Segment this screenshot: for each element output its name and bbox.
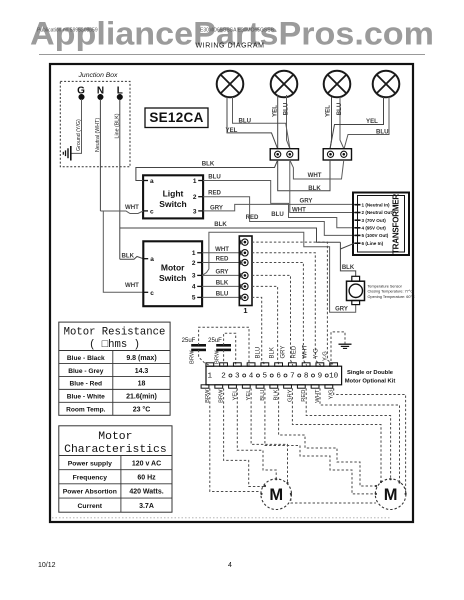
svg-text:WHT: WHT <box>125 282 139 289</box>
wire BLK light switch a riser <box>136 160 278 181</box>
svg-text:BLK: BLK <box>270 347 276 358</box>
svg-text:Junction Box: Junction Box <box>78 72 119 79</box>
svg-text:BLU: BLU <box>216 290 229 297</box>
dashed ground wire (kit) <box>331 332 345 366</box>
kit screws <box>229 374 232 377</box>
kit pin 10 tab <box>330 363 338 366</box>
svg-text:BLU: BLU <box>208 174 221 181</box>
wire BLK kit6 to M2 <box>279 388 377 486</box>
svg-text:Line (BLK): Line (BLK) <box>115 113 121 138</box>
svg-text:Motor: Motor <box>98 431 132 443</box>
svg-text:YEL: YEL <box>325 105 332 117</box>
svg-text:10: 10 <box>329 373 339 381</box>
svg-text:BRW: BRW <box>219 389 225 403</box>
dashed harness strip to kit connector <box>252 242 335 365</box>
wire BLK line to motor switch a <box>120 257 144 260</box>
svg-text:120 v AC: 120 v AC <box>132 460 161 467</box>
wire BRW kit2 to M1 <box>224 388 265 486</box>
model label SE12CA <box>145 108 208 128</box>
svg-text:14.3: 14.3 <box>135 368 149 375</box>
svg-text:Neutral (WHT): Neutral (WHT) <box>95 118 101 152</box>
lamp E3 wire BLU <box>340 97 344 149</box>
svg-text:5: 5 <box>263 373 268 381</box>
svg-text:4: 4 <box>228 562 232 569</box>
wire WHT branch to motor switch c <box>103 211 143 292</box>
svg-text:23 °C: 23 °C <box>133 406 151 414</box>
lamp E2 wire BLU <box>287 95 291 149</box>
wire WHT to transformer pin2 <box>290 160 355 213</box>
ground wire (Y/G) <box>72 99 82 153</box>
motor M1 <box>261 479 292 510</box>
svg-text:c: c <box>150 208 154 215</box>
svg-text:1: 1 <box>243 306 247 315</box>
wire WHT motor switch 1 <box>202 252 239 254</box>
svg-text:Opening Temperature: 60°C: Opening Temperature: 60°C <box>368 295 416 299</box>
svg-text:BRW: BRW <box>190 350 196 364</box>
svg-text:RED: RED <box>216 256 229 263</box>
wire BLU kit5 to M2 <box>265 388 375 494</box>
svg-text:Frequency: Frequency <box>73 474 108 481</box>
kit pin 6 tab <box>275 363 283 366</box>
wire GRY motor switch 3 to sensor bottom <box>202 232 356 312</box>
wire link M1 to M2 <box>291 494 376 503</box>
wire RED kit8 to M2 <box>306 388 390 479</box>
svg-text:WHT: WHT <box>125 204 139 211</box>
svg-text:Blue - White: Blue - White <box>67 394 105 401</box>
svg-text:SE12CA: SE12CA <box>149 110 203 125</box>
svg-text:8: 8 <box>304 373 309 381</box>
svg-text:9.8 (max): 9.8 (max) <box>126 355 156 362</box>
svg-text:4: 4 <box>192 284 196 291</box>
svg-text:Power supply: Power supply <box>68 460 112 467</box>
svg-text:WHT: WHT <box>215 246 229 253</box>
svg-text:2: 2 <box>192 260 196 267</box>
kit pin 3 tab <box>233 363 241 366</box>
svg-text:YEL: YEL <box>272 105 279 117</box>
svg-text:GRY: GRY <box>280 346 286 359</box>
wire BLK to temperature sensor top <box>340 242 355 276</box>
neutral wire (WHT) <box>99 99 101 211</box>
temperature sensor <box>352 276 360 281</box>
wire BLU motor switch 5 <box>202 296 239 298</box>
svg-text:( □hms ): ( □hms ) <box>89 339 140 351</box>
header rule <box>39 54 425 56</box>
svg-text:BLU: BLU <box>256 347 262 359</box>
svg-text:RED: RED <box>301 390 307 402</box>
line wire (BLK) <box>119 99 121 259</box>
motor characteristics table <box>59 426 172 512</box>
svg-text:BLK: BLK <box>202 161 215 168</box>
svg-text:3: 3 <box>192 273 196 280</box>
svg-text:2: 2 <box>193 194 197 201</box>
wire Y/G kit10 to M2 <box>334 388 406 494</box>
motor switch S2 <box>143 241 202 306</box>
svg-text:18: 18 <box>138 381 146 388</box>
svg-text:3.7A: 3.7A <box>139 503 154 510</box>
wire YEL kit4 to M1 <box>251 388 287 482</box>
lamp connector X1 <box>270 149 298 160</box>
lamp connector X2 <box>323 149 351 160</box>
capacitor dashed leads <box>199 327 249 365</box>
svg-text:Closing Temperature: 77°C: Closing Temperature: 77°C <box>368 290 414 294</box>
svg-text:GRY: GRY <box>335 306 348 312</box>
junction box (dashed) <box>60 81 130 166</box>
svg-text:BLU: BLU <box>239 117 252 124</box>
svg-text:Power Absortion: Power Absortion <box>63 489 117 496</box>
svg-text:Motor Resistance: Motor Resistance <box>64 327 166 339</box>
svg-text:Blue - Red: Blue - Red <box>69 381 102 388</box>
svg-text:GRY: GRY <box>210 204 223 211</box>
svg-text:WHT: WHT <box>308 172 322 179</box>
wire to transformer pin6 <box>340 243 354 249</box>
svg-text:1: 1 <box>208 373 213 381</box>
svg-text:YEL: YEL <box>226 127 238 134</box>
svg-text:BLK: BLK <box>216 279 229 286</box>
svg-text:2 (Neutral Out): 2 (Neutral Out) <box>362 210 394 215</box>
svg-text:WHT: WHT <box>303 345 309 359</box>
svg-text:RED: RED <box>246 214 259 221</box>
svg-text:1: 1 <box>193 178 197 185</box>
svg-text:Characteristics: Characteristics <box>64 444 167 456</box>
svg-text:WIRING DIAGRAM: WIRING DIAGRAM <box>195 43 264 50</box>
wire BLK motor switch 4 <box>202 285 239 287</box>
svg-text:BLK: BLK <box>308 185 321 192</box>
optional kit terminal strip <box>206 366 342 385</box>
svg-text:a: a <box>150 256 154 263</box>
svg-text:Light: Light <box>163 189 184 199</box>
svg-text:Motor: Motor <box>161 263 185 273</box>
svg-text:TRANSFORMER: TRANSFORMER <box>392 194 401 254</box>
svg-text:WHT: WHT <box>292 207 306 214</box>
svg-text:3 (70V Out): 3 (70V Out) <box>362 218 387 223</box>
svg-text:21.6(min): 21.6(min) <box>126 394 157 401</box>
kit pin 1 tab <box>206 363 214 366</box>
svg-text:BLK: BLK <box>214 221 227 228</box>
svg-text:2: 2 <box>221 373 226 381</box>
diagram border frame <box>50 64 413 522</box>
svg-text:BLU: BLU <box>376 129 389 136</box>
svg-text:1: 1 <box>192 250 196 257</box>
svg-text:a: a <box>150 178 154 185</box>
svg-text:c: c <box>150 290 154 297</box>
svg-text:5: 5 <box>192 295 196 302</box>
svg-text:Publication no 5995308659: Publication no 5995308659 <box>37 28 98 34</box>
lamp E2 <box>271 71 298 98</box>
svg-text:4 (95V Out): 4 (95V Out) <box>362 226 387 231</box>
motor resistance table <box>59 322 170 415</box>
svg-text:GRY: GRY <box>300 198 313 205</box>
svg-text:Y-G: Y-G <box>323 351 329 361</box>
svg-text:Switch: Switch <box>159 273 186 283</box>
svg-text:GRY: GRY <box>287 389 293 402</box>
svg-text:Ground (Y/G): Ground (Y/G) <box>76 119 82 151</box>
wire BLU light switch 1 to transformer pin4 <box>203 181 354 228</box>
svg-text:9: 9 <box>318 373 323 381</box>
svg-text:10/12: 10/12 <box>38 562 56 569</box>
svg-text:Room Temp.: Room Temp. <box>66 407 106 414</box>
lamp E1 wire YEL <box>227 97 278 149</box>
wire GRY motor switch 3 <box>202 274 239 276</box>
svg-text:5 (100V Out): 5 (100V Out) <box>362 233 389 238</box>
svg-text:RED: RED <box>208 190 221 197</box>
wire BLK X1 to X2 <box>278 160 330 191</box>
svg-text:BLU: BLU <box>271 211 284 218</box>
motor M1 terminals <box>260 493 262 495</box>
wire WHT neutral to light switch c <box>100 211 143 214</box>
svg-text:420 Watts.: 420 Watts. <box>129 489 163 496</box>
svg-text:BLK: BLK <box>122 253 135 260</box>
svg-text:BLU: BLU <box>336 102 343 115</box>
kit pin 4 tab <box>247 363 255 366</box>
svg-text:6: 6 <box>276 373 281 381</box>
svg-text:6 (Line In): 6 (Line In) <box>362 241 384 246</box>
wire BLK line branch to pin6 <box>120 228 341 242</box>
svg-text:7: 7 <box>290 373 295 381</box>
kit pin 5 tab <box>261 363 269 366</box>
kit pin 7 tab <box>288 363 296 366</box>
svg-text:RED: RED <box>291 345 297 358</box>
svg-text:E30MO65GSSA E30MO65GSSB: E30MO65GSSA E30MO65GSSB <box>200 28 275 34</box>
lamp E2 wire YEL <box>277 95 279 149</box>
wire GRY kit7 to M2 <box>292 388 381 482</box>
svg-text:Temperature Sensor: Temperature Sensor <box>368 285 403 289</box>
motor M2 terminals <box>375 493 377 495</box>
svg-text:25uF: 25uF <box>182 338 196 344</box>
svg-text:1 (Neutral In): 1 (Neutral In) <box>362 202 391 207</box>
wire WHT X1 to X2 <box>290 160 344 179</box>
wire WHT kit9 to M2 <box>320 388 400 482</box>
ground symbol (junction box) <box>70 146 72 161</box>
svg-text:BRW: BRW <box>205 389 211 403</box>
svg-text:25uF: 25uF <box>208 338 222 344</box>
lamp E3 <box>324 71 351 98</box>
kit pin 8 tab <box>302 363 310 366</box>
svg-text:BLK: BLK <box>342 265 355 271</box>
svg-text:YEL: YEL <box>366 118 378 125</box>
wire GRY light switch 3 to transformer pin1 <box>203 204 354 211</box>
wire YEL kit3 to M1 <box>237 388 276 479</box>
wire BRW kit1 to M1 <box>210 388 261 491</box>
dashed fold line <box>52 517 390 519</box>
lamp E1 wire BLU <box>233 97 291 149</box>
svg-text:GRY: GRY <box>216 268 229 275</box>
svg-text:M: M <box>269 486 283 504</box>
svg-text:Switch: Switch <box>159 199 186 209</box>
wire RED motor switch 2 <box>202 262 239 264</box>
svg-text:WHT: WHT <box>315 389 321 403</box>
kit pin 9 tab <box>316 363 324 366</box>
svg-text:BRW: BRW <box>215 350 221 364</box>
motor switch connector strip <box>239 236 252 306</box>
svg-text:BLU: BLU <box>283 102 290 115</box>
lamp E4 <box>373 71 400 98</box>
svg-text:Blue - Black: Blue - Black <box>67 355 105 362</box>
svg-text:Y-G: Y-G <box>313 348 319 358</box>
motor M2 <box>375 479 406 510</box>
kit pin 2 tab <box>220 363 228 366</box>
svg-text:Motor Optional Kit: Motor Optional Kit <box>345 379 396 385</box>
svg-text:Single or Double: Single or Double <box>347 370 394 376</box>
lamp E4 wire YEL <box>330 97 384 149</box>
lamp E3 wire YEL <box>330 97 332 149</box>
svg-text:4: 4 <box>249 373 254 381</box>
light switch S1 <box>143 175 203 218</box>
lamp E4 wire BLU <box>344 97 389 149</box>
svg-text:M: M <box>384 486 398 504</box>
svg-text:3: 3 <box>235 373 240 381</box>
svg-text:Blue - Grey: Blue - Grey <box>68 368 104 375</box>
transformer T1 <box>353 193 409 256</box>
lamp E1 <box>217 71 244 98</box>
wire RED light switch 2 to transformer pin5 <box>203 197 354 236</box>
svg-text:60 Hz: 60 Hz <box>137 474 156 481</box>
ground symbol (kit) <box>339 343 352 345</box>
svg-text:3: 3 <box>193 208 197 215</box>
svg-text:Current: Current <box>78 503 103 510</box>
